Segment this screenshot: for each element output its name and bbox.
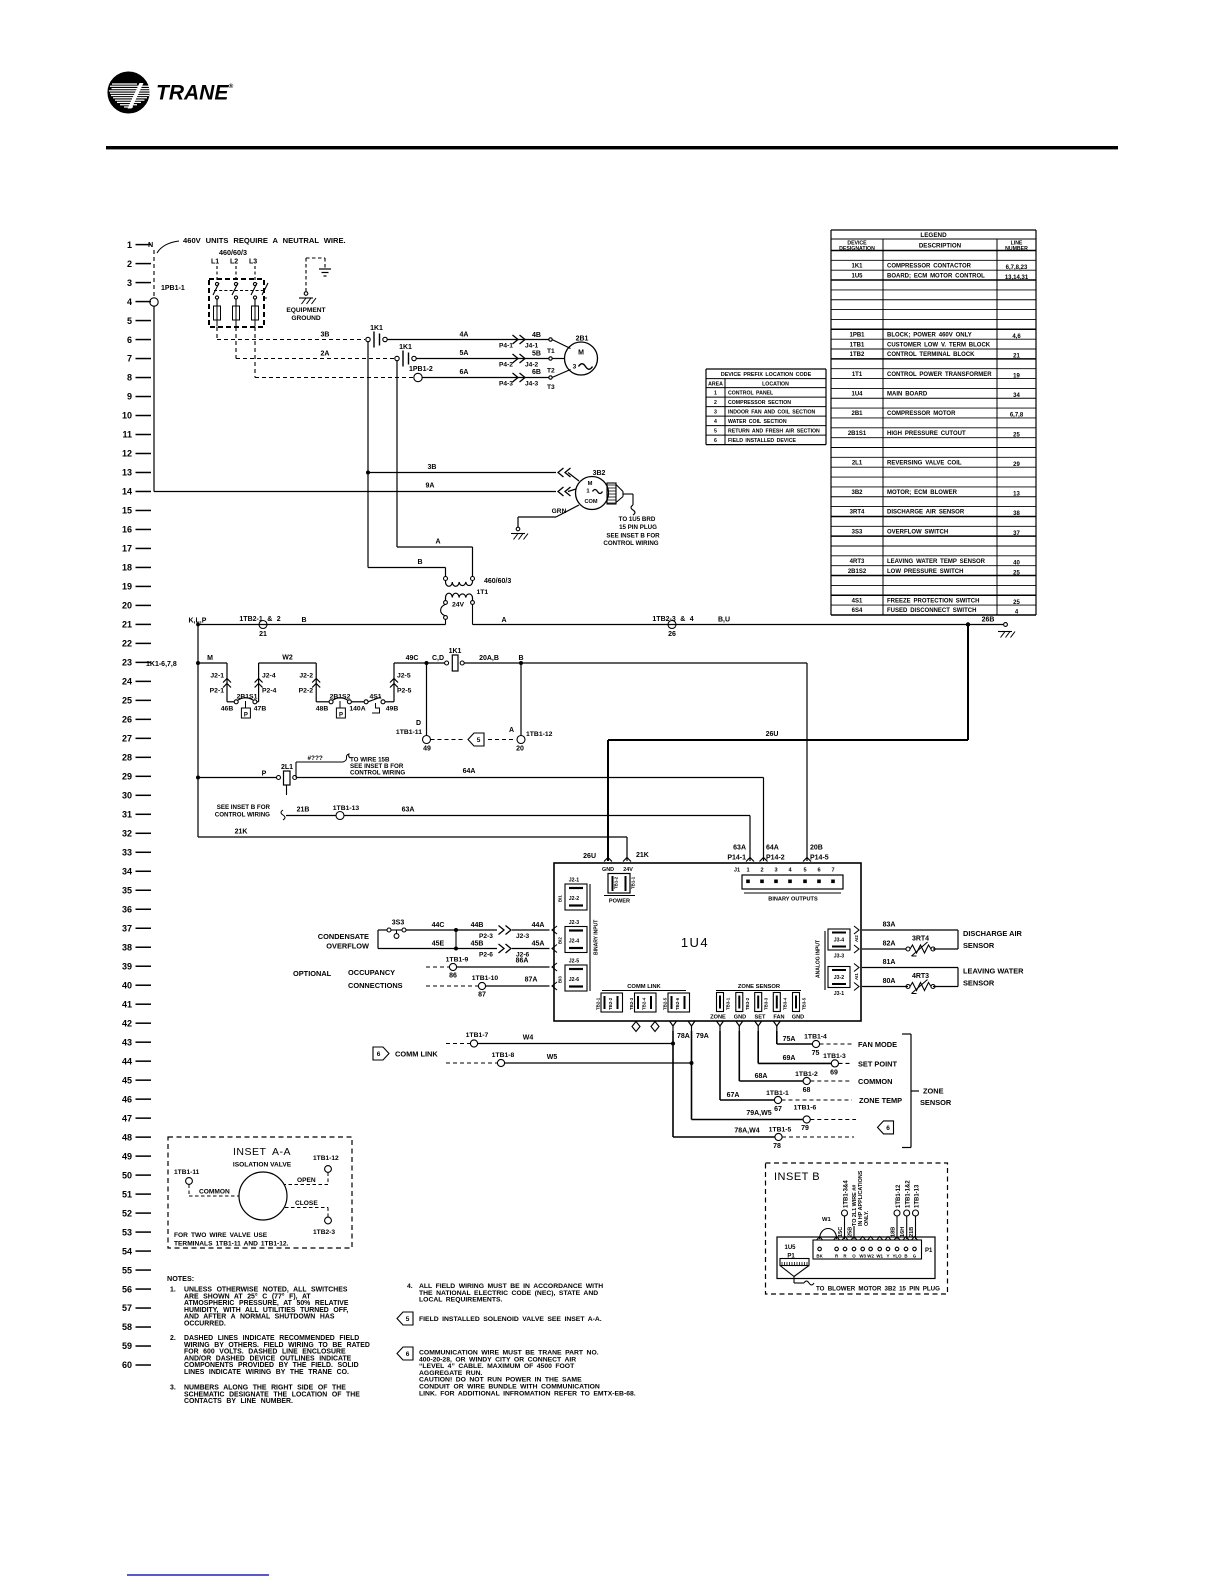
svg-text:25: 25 [1013, 570, 1020, 576]
svg-text:24V: 24V [452, 602, 465, 609]
plug P2-6/J2-6 [499, 944, 505, 953]
svg-text:69A: 69A [783, 1055, 796, 1062]
svg-text:AI1: AI1 [854, 973, 859, 980]
svg-text:J2-4: J2-4 [569, 939, 579, 945]
wire 67A [719, 1031, 721, 1100]
svg-text:24: 24 [122, 677, 132, 687]
svg-text:2L1: 2L1 [852, 460, 863, 466]
svg-text:1U5: 1U5 [851, 273, 863, 279]
svg-text:WATER COIL SECTION: WATER COIL SECTION [728, 419, 787, 425]
board edge arrow 81A [854, 964, 859, 972]
dashed close [285, 1207, 328, 1209]
junction node D [425, 661, 429, 665]
svg-text:36: 36 [122, 904, 132, 914]
main board 1U4 outline [554, 863, 861, 1021]
wire 64A [297, 777, 764, 779]
svg-text:26: 26 [122, 715, 132, 725]
wire 6A [423, 377, 549, 379]
svg-text:48B: 48B [316, 706, 329, 713]
terminal 1TB1-6 [803, 1116, 810, 1123]
ECM blower motor 3B2 [576, 477, 609, 510]
svg-text:49: 49 [122, 1151, 132, 1161]
svg-text:47: 47 [122, 1113, 132, 1123]
svg-text:2B1S1: 2B1S1 [848, 431, 867, 437]
svg-text:COMM LINK: COMM LINK [395, 1050, 438, 1059]
wire neutral dashed [153, 250, 155, 297]
wire 49C [394, 662, 427, 664]
svg-text:1TB1-12: 1TB1-12 [313, 1155, 339, 1162]
svg-text:L1: L1 [211, 259, 219, 266]
svg-text:1TB1-7: 1TB1-7 [466, 1032, 489, 1039]
svg-text:T1: T1 [547, 348, 555, 355]
svg-text:P2-4: P2-4 [262, 688, 277, 695]
wire neutral [153, 306, 155, 492]
board edge arrow 82A [854, 945, 859, 953]
svg-text:3S3: 3S3 [852, 529, 863, 535]
svg-text:34: 34 [1013, 393, 1020, 399]
svg-text:B: B [417, 559, 422, 566]
svg-text:1TB2-1 & 2: 1TB2-1 & 2 [239, 616, 280, 623]
terminal 1TB2-3 inset [325, 1217, 332, 1224]
svg-text:B: B [301, 617, 306, 624]
svg-text:6A: 6A [460, 369, 469, 376]
svg-text:1K1: 1K1 [370, 325, 383, 332]
svg-text:21K: 21K [636, 852, 649, 859]
svg-text:7: 7 [831, 868, 834, 874]
svg-text:LINK. FOR ADDITIONAL INFROMATI: LINK. FOR ADDITIONAL INFROMATION REFER T… [419, 1390, 636, 1397]
svg-text:P2-1: P2-1 [210, 688, 225, 695]
contactor contact 1K1 line6 [366, 337, 370, 341]
svg-text:TB3-1: TB3-1 [726, 997, 731, 1010]
svg-text:1TB1-8: 1TB1-8 [492, 1052, 515, 1059]
svg-text:Y: Y [887, 1254, 890, 1259]
wire 9A into motor [568, 489, 576, 492]
terminal 1TB1-5 [775, 1133, 782, 1140]
svg-text:3B2: 3B2 [593, 470, 606, 477]
svg-text:87: 87 [478, 992, 486, 999]
terminal 1TB2-1 and 2 [259, 621, 267, 629]
svg-text:1TB1-3&4: 1TB1-3&4 [844, 1180, 850, 1208]
terminal 1TB1-2 [803, 1077, 810, 1084]
svg-text:TB2-1: TB2-1 [596, 997, 601, 1010]
svg-text:A: A [501, 617, 506, 624]
svg-text:B: B [904, 1254, 907, 1259]
svg-text:3RT4: 3RT4 [850, 510, 865, 516]
svg-text:TB2-2: TB2-2 [608, 997, 613, 1010]
svg-text:B,U: B,U [718, 617, 730, 624]
unused pin diamonds [632, 1022, 640, 1032]
svg-text:1TB1-12: 1TB1-12 [526, 731, 553, 738]
dashed from 1TB1-5 [782, 1136, 854, 1138]
wire 16H [906, 1216, 908, 1239]
svg-text:INDOOR FAN AND COIL SECTION: INDOOR FAN AND COIL SECTION [728, 410, 816, 416]
svg-text:10: 10 [122, 411, 132, 421]
junction bus line23 [196, 661, 200, 665]
svg-text:4RT3: 4RT3 [912, 973, 929, 980]
svg-text:1PB1: 1PB1 [849, 332, 865, 338]
wire 18B [896, 1216, 898, 1239]
svg-text:56: 56 [122, 1284, 132, 1294]
svg-text:2: 2 [127, 259, 132, 269]
svg-text:51: 51 [122, 1189, 132, 1199]
wire 26U right bus [967, 625, 969, 741]
svg-text:24V: 24V [623, 867, 633, 873]
svg-text:3B2: 3B2 [851, 490, 863, 496]
wire 78A vertical [672, 1031, 674, 1137]
wire 21K [198, 836, 627, 838]
svg-text:J3-3: J3-3 [834, 954, 844, 960]
svg-text:COMMON: COMMON [858, 1077, 893, 1086]
svg-text:P: P [339, 712, 343, 718]
svg-text:ZONE: ZONE [923, 1087, 944, 1096]
svg-text:19: 19 [122, 582, 132, 592]
svg-text:6: 6 [886, 1125, 890, 1132]
svg-text:19: 19 [1013, 373, 1020, 379]
svg-text:25: 25 [1013, 600, 1020, 606]
svg-text:1TB1-2: 1TB1-2 [795, 1071, 818, 1078]
binary input bracket [589, 884, 591, 991]
svg-text:M: M [588, 481, 593, 487]
svg-text:TB3-2: TB3-2 [745, 997, 750, 1010]
svg-text:D: D [416, 720, 421, 727]
high pressure cutout 2B1S1 [234, 700, 238, 704]
svg-text:1TB1-13: 1TB1-13 [333, 805, 360, 812]
wire 4A [387, 339, 549, 341]
flag 5 solenoid valve [468, 733, 484, 746]
board edge arrow 44A [552, 926, 557, 934]
ground 26B [1004, 623, 1008, 627]
svg-text:78: 78 [773, 1143, 781, 1150]
svg-text:58: 58 [122, 1322, 132, 1332]
wire 63A drop P14-1 [749, 816, 751, 862]
svg-text:3B: 3B [321, 332, 330, 339]
wire 45E [378, 948, 497, 950]
svg-text:BINARY INPUT: BINARY INPUT [594, 920, 600, 955]
dashed from 1TB1-6 [810, 1119, 856, 1121]
svg-text:1U4: 1U4 [851, 392, 863, 398]
svg-text:J2-6: J2-6 [569, 977, 579, 983]
svg-text:LOCATION: LOCATION [762, 381, 789, 387]
svg-text:CONTROL WIRING: CONTROL WIRING [603, 540, 658, 547]
svg-text:CONTROL POWER TRANSFORMER: CONTROL POWER TRANSFORMER [887, 372, 992, 378]
wire W5 dashed [446, 1062, 497, 1064]
svg-text:TERMINALS 1TB1-11 AND 1TB1-12.: TERMINALS 1TB1-11 AND 1TB1-12. [174, 1241, 289, 1248]
svg-text:1TB1-1&2: 1TB1-1&2 [906, 1180, 912, 1208]
svg-text:21: 21 [122, 620, 132, 630]
svg-text:P4-3: P4-3 [499, 381, 513, 388]
contactor coil 1K1 [445, 661, 449, 665]
wire 26U drop to board [607, 740, 609, 861]
svg-text:J2-5: J2-5 [569, 959, 579, 965]
svg-text:2: 2 [714, 400, 717, 406]
svg-text:P14-2: P14-2 [766, 855, 785, 862]
wire B to transformer [368, 567, 446, 569]
board edge arrow 83A [854, 926, 859, 934]
svg-text:J2-4: J2-4 [262, 673, 276, 680]
svg-text:59: 59 [122, 1341, 132, 1351]
svg-text:CONTROL PANEL: CONTROL PANEL [728, 391, 774, 397]
plug chevrons 9A [558, 487, 564, 496]
svg-text:4S1: 4S1 [369, 694, 381, 701]
svg-text:5: 5 [477, 737, 481, 744]
svg-text:18: 18 [122, 563, 132, 573]
svg-text:TB3-4: TB3-4 [782, 997, 787, 1010]
svg-text:CLOSE: CLOSE [295, 1200, 318, 1207]
svg-text:26U: 26U [583, 853, 596, 860]
device prefix location code table [706, 369, 826, 445]
svg-text:POWER: POWER [609, 899, 630, 905]
flag 6 comm link [373, 1047, 389, 1060]
svg-text:81A: 81A [883, 959, 896, 966]
wire 80A [862, 986, 908, 988]
svg-text:ANALOG INPUT: ANALOG INPUT [816, 940, 822, 978]
svg-text:CONTROL WIRING: CONTROL WIRING [350, 770, 405, 777]
svg-text:26B: 26B [982, 617, 995, 624]
svg-text:P1: P1 [925, 1248, 933, 1254]
svg-text:2L1: 2L1 [281, 764, 293, 771]
svg-text:TB3-5: TB3-5 [802, 997, 807, 1010]
equipment ground terminal [304, 292, 308, 296]
svg-text:1PB1-1: 1PB1-1 [161, 285, 185, 292]
svg-text:J2-3: J2-3 [569, 920, 579, 926]
svg-text:1TB1-13: 1TB1-13 [915, 1184, 921, 1208]
svg-text:P: P [244, 712, 248, 718]
svg-text:J4-2: J4-2 [525, 362, 539, 369]
svg-text:21B: 21B [297, 807, 310, 814]
plug chevrons 3B [558, 468, 564, 477]
wire 82A [862, 948, 906, 950]
svg-text:49: 49 [423, 746, 431, 753]
svg-text:BI1: BI1 [558, 895, 563, 902]
wire 86A [457, 966, 550, 968]
wire drop P14-5 [806, 663, 808, 861]
svg-text:OCCUPANCY: OCCUPANCY [348, 968, 395, 977]
svg-text:63A: 63A [733, 845, 746, 852]
svg-text:ZONE SENSOR: ZONE SENSOR [738, 984, 781, 990]
svg-text:LINES INDICATE WIRING BY THE T: LINES INDICATE WIRING BY THE TRANE CO. [184, 1369, 349, 1376]
svg-text:33: 33 [122, 847, 132, 857]
svg-text:5B: 5B [532, 351, 541, 358]
svg-text:21: 21 [1013, 354, 1020, 360]
svg-text:9: 9 [127, 392, 132, 402]
svg-text:TB3-3: TB3-3 [764, 997, 769, 1010]
connector 1U5 P1 plug [780, 1259, 809, 1266]
svg-text:68A: 68A [755, 1073, 768, 1080]
wire 63A [344, 815, 750, 817]
svg-text:OCCURRED.: OCCURRED. [184, 1321, 226, 1328]
svg-text:75: 75 [812, 1050, 820, 1057]
svg-text:79: 79 [801, 1125, 809, 1132]
svg-text:11: 11 [122, 430, 132, 440]
svg-text:P2-6: P2-6 [479, 952, 493, 959]
wire 15C [844, 1216, 846, 1239]
svg-text:COMPRESSOR MOTOR: COMPRESSOR MOTOR [887, 411, 956, 417]
svg-text:1TB2: 1TB2 [850, 352, 865, 358]
svg-text:J2-2: J2-2 [299, 673, 313, 680]
svg-text:DISCHARGE AIR: DISCHARGE AIR [963, 929, 1023, 938]
svg-text:68: 68 [803, 1087, 811, 1094]
zone sensor bracket [910, 1034, 912, 1148]
note flag 5 [397, 1312, 413, 1325]
svg-text:4A: 4A [460, 332, 469, 339]
svg-text:1TB1-11: 1TB1-11 [174, 1169, 200, 1176]
svg-text:13: 13 [122, 468, 132, 478]
svg-text:OVERFLOW SWITCH: OVERFLOW SWITCH [887, 529, 948, 535]
board 1U5 outline [777, 1237, 935, 1279]
pin stub TB2-5 [670, 1021, 677, 1026]
svg-text:52: 52 [122, 1208, 132, 1218]
wire 140A [352, 701, 365, 703]
wire L3 dashed [254, 266, 256, 280]
svg-text:45E: 45E [432, 941, 445, 948]
svg-text:49B: 49B [386, 706, 399, 713]
svg-text:LOCAL REQUIREMENTS.: LOCAL REQUIREMENTS. [419, 1297, 503, 1304]
svg-text:GND: GND [734, 1015, 746, 1021]
svg-text:P4-2: P4-2 [499, 362, 513, 369]
wire A drop to 1TB1-12 [520, 663, 522, 736]
svg-text:TB1-2: TB1-2 [614, 876, 619, 889]
terminal 1TB1-9 [449, 963, 456, 970]
wire 49B [385, 701, 394, 703]
wire 87 dashed [426, 985, 478, 987]
wire 44C [406, 929, 497, 931]
svg-text:AREA: AREA [708, 381, 723, 387]
svg-text:W3: W3 [859, 1254, 866, 1259]
svg-text:FUSED DISCONNECT SWITCH: FUSED DISCONNECT SWITCH [887, 608, 976, 614]
svg-text:6: 6 [817, 868, 820, 874]
svg-text:75A: 75A [783, 1036, 796, 1043]
wire 9A [154, 491, 556, 493]
svg-text:8: 8 [127, 373, 132, 383]
plug P2-3/J2-3 [499, 926, 505, 935]
svg-text:15C: 15C [838, 1227, 844, 1237]
wire L3 to 6A dashed [254, 327, 256, 378]
svg-text:27: 27 [122, 734, 132, 744]
svg-text:3RT4: 3RT4 [912, 936, 929, 943]
svg-text:AI2: AI2 [854, 935, 859, 942]
svg-text:2B1: 2B1 [851, 411, 863, 417]
svg-text:BLOCK; POWER 460V ONLY: BLOCK; POWER 460V ONLY [887, 332, 972, 338]
svg-text:1TB1-12: 1TB1-12 [896, 1184, 902, 1208]
wire 46B [227, 701, 234, 703]
svg-text:BOARD; ECM MOTOR CONTROL: BOARD; ECM MOTOR CONTROL [887, 273, 985, 279]
svg-text:COMMON: COMMON [199, 1189, 230, 1196]
svg-text:NOTES:: NOTES: [167, 1274, 194, 1283]
wire W5 [505, 1062, 692, 1064]
svg-text:30: 30 [122, 791, 132, 801]
wire 79A vertical [691, 1031, 693, 1120]
svg-text:COMM LINK: COMM LINK [627, 984, 661, 990]
svg-text:1TB1-6: 1TB1-6 [794, 1105, 817, 1112]
svg-text:BK: BK [816, 1254, 823, 1259]
dashed link to flag 5 [431, 739, 465, 741]
overflow switch 3S3 [377, 930, 379, 949]
Trane logo circle [108, 72, 149, 113]
svg-text:LEAVING WATER TEMP SENSOR: LEAVING WATER TEMP SENSOR [887, 559, 986, 565]
svg-text:C,D: C,D [432, 655, 444, 662]
svg-text:6: 6 [127, 335, 132, 345]
svg-text:60: 60 [122, 1360, 132, 1370]
svg-text:42: 42 [122, 1018, 132, 1028]
dashed common [810, 1080, 852, 1082]
connector J2-2/P2-2 [315, 663, 317, 702]
svg-text:W2: W2 [282, 655, 293, 662]
svg-text:34: 34 [122, 866, 132, 876]
svg-text:CONTACTS BY LINE NUMBER.: CONTACTS BY LINE NUMBER. [184, 1398, 293, 1405]
svg-text:#???: #??? [308, 755, 323, 762]
svg-text:J2-5: J2-5 [397, 673, 411, 680]
terminal 1TB1-11 [423, 736, 431, 744]
svg-text:4B: 4B [532, 332, 541, 339]
svg-text:47B: 47B [254, 706, 267, 713]
wire 68A [738, 1031, 740, 1081]
wire L2 dashed [235, 266, 237, 280]
svg-text:1PB1-2: 1PB1-2 [409, 366, 433, 373]
svg-text:SEE INSET B FOR: SEE INSET B FOR [217, 804, 271, 811]
svg-text:FIELD INSTALLED SOLENOID VALVE: FIELD INSTALLED SOLENOID VALVE SEE INSET… [419, 1316, 602, 1323]
svg-text:5: 5 [406, 1316, 410, 1323]
svg-text:MOTOR; ECM BLOWER: MOTOR; ECM BLOWER [887, 490, 958, 496]
svg-text:1TB1-1: 1TB1-1 [766, 1090, 789, 1097]
dashed set point [839, 1062, 853, 1064]
svg-text:G: G [913, 1254, 917, 1259]
wire 21 right rail [473, 624, 969, 626]
header rule [106, 146, 1118, 149]
wire 25B [853, 1226, 855, 1239]
svg-text:2.: 2. [170, 1335, 176, 1342]
svg-text:CONDENSATE: CONDENSATE [318, 932, 369, 941]
svg-text:63A: 63A [402, 807, 415, 814]
wire 21K drop to board [626, 837, 628, 861]
svg-text:J3-2: J3-2 [834, 975, 844, 981]
svg-text:SEE INSET B FOR: SEE INSET B FOR [606, 533, 660, 540]
svg-text:W5: W5 [547, 1054, 558, 1061]
svg-text:FIELD INSTALLED DEVICE: FIELD INSTALLED DEVICE [728, 438, 796, 444]
wire 21B inset [915, 1216, 917, 1239]
svg-text:TB1-1: TB1-1 [631, 876, 636, 889]
svg-text:TO 1U5 BRD: TO 1U5 BRD [619, 516, 656, 523]
svg-text:J2-1: J2-1 [569, 878, 579, 884]
terminal 1TB1-10 [478, 982, 485, 989]
svg-text:40: 40 [122, 980, 132, 990]
wire C,D [427, 662, 445, 664]
inset B box [766, 1163, 948, 1294]
transformer secondary right lead [471, 601, 475, 605]
svg-text:SENSOR: SENSOR [963, 979, 995, 988]
svg-text:B: B [518, 655, 523, 662]
svg-text:BI3: BI3 [558, 976, 563, 983]
wire 45A [512, 948, 550, 950]
svg-text:O: O [852, 1254, 856, 1259]
svg-text:15: 15 [122, 506, 132, 516]
svg-text:20: 20 [516, 746, 524, 753]
svg-text:35: 35 [122, 885, 132, 895]
svg-text:69: 69 [830, 1070, 838, 1077]
svg-text:ONLY.: ONLY. [864, 1210, 870, 1226]
inset A-A box [168, 1137, 352, 1248]
svg-text:1TB1-4: 1TB1-4 [804, 1034, 827, 1041]
svg-text:J3-1: J3-1 [834, 991, 844, 997]
wire 3B into motor [568, 473, 579, 482]
wire W2 [259, 662, 317, 664]
svg-text:37: 37 [1013, 531, 1020, 537]
fused disconnect switch 6S4 enclosure [209, 279, 264, 327]
svg-text:5: 5 [127, 316, 132, 326]
legend table [831, 230, 1036, 616]
svg-text:DEVICE PREFIX LOCATION CODE: DEVICE PREFIX LOCATION CODE [721, 372, 812, 378]
svg-text:MAIN BOARD: MAIN BOARD [887, 392, 928, 398]
wire 44A [512, 929, 550, 931]
